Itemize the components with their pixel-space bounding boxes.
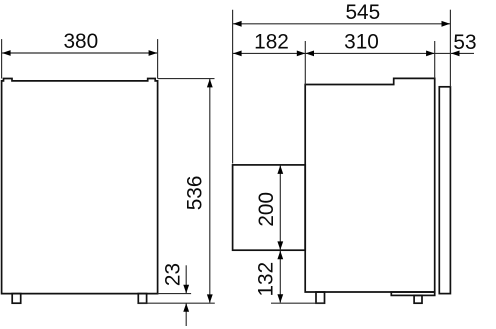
dimension line 545 — [233, 23, 450, 25]
ground line right view — [271, 302, 325, 304]
svg-text:23: 23 — [161, 263, 184, 286]
extension line right of 380 — [157, 39, 159, 78]
arrow 545 left — [233, 21, 242, 27]
arrow 200 top — [277, 165, 283, 174]
ground line left view — [138, 302, 215, 304]
arrow 310 right — [426, 51, 435, 57]
cooling unit box — [233, 165, 306, 250]
side left foot — [316, 292, 325, 303]
front right foot — [138, 294, 146, 304]
arrow 380 left — [2, 50, 11, 56]
side right foot — [414, 295, 422, 303]
dimension line 132 — [279, 251, 281, 303]
front left foot — [12, 294, 21, 304]
dimension line 380 — [2, 52, 157, 54]
svg-text:536: 536 — [184, 176, 207, 211]
arrow 182 left — [233, 51, 242, 57]
dimension line 53 tail — [451, 52, 474, 54]
arrow 536 bottom — [207, 294, 213, 303]
arrow 23 down — [183, 285, 189, 294]
extension line x1 (182/310) — [304, 41, 306, 85]
arrow 380 right — [149, 50, 158, 56]
svg-text:182: 182 — [254, 31, 289, 54]
extension line bottom edge for 23 — [158, 293, 192, 295]
arrow 545 right — [442, 21, 451, 27]
svg-text:132: 132 — [254, 262, 277, 297]
extension line x3 (front) above door — [449, 10, 451, 87]
svg-text:200: 200 — [255, 192, 278, 227]
bottom front strip — [391, 292, 434, 295]
arrow 53 right-outside — [451, 51, 460, 57]
arrow 536 top — [207, 79, 213, 88]
front body outline with top corner tabs — [2, 79, 158, 294]
side body outline with top step — [305, 78, 435, 292]
dimension line 536 — [209, 79, 211, 303]
extension line top for 536 — [158, 78, 215, 80]
dimension line 23 lower — [185, 304, 187, 327]
arrow 23 up — [183, 303, 189, 312]
extension line x0 (back) — [232, 10, 234, 164]
svg-text:545: 545 — [345, 1, 380, 24]
extension line x2 (310/53) — [434, 41, 436, 78]
extension line left of 380 — [1, 39, 3, 78]
svg-text:380: 380 — [63, 30, 98, 53]
arrow 132 bottom — [277, 294, 283, 303]
dimension line 200 — [279, 166, 281, 250]
svg-text:53: 53 — [453, 31, 476, 54]
door panel — [439, 87, 450, 294]
dimension line 182-310-53 row — [233, 52, 450, 54]
arrow 132 top — [277, 251, 283, 259]
dimension line 23 upper — [185, 265, 187, 293]
arrow 182 right — [297, 51, 306, 57]
svg-text:310: 310 — [344, 30, 379, 53]
arrow 310 left — [306, 51, 315, 57]
arrow 200 bottom — [277, 241, 283, 250]
